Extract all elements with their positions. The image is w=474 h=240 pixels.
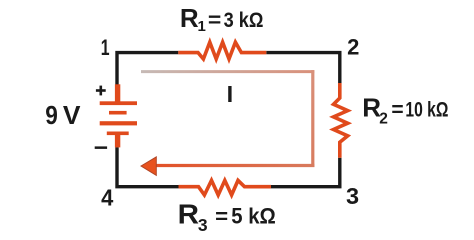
wire R1 to node 2 to R2 (top-right) bbox=[266, 53, 340, 83]
wire R2 to node 3 to R3 (bottom-right) bbox=[271, 158, 340, 187]
svg-text:3 kΩ: 3 kΩ bbox=[224, 9, 264, 32]
current loop bottom segment bbox=[156, 164, 314, 167]
svg-text:5 kΩ: 5 kΩ bbox=[231, 204, 275, 229]
current loop right segment bbox=[311, 70, 314, 167]
wire node 1 to R1 (top-left) bbox=[117, 53, 178, 85]
svg-text:R: R bbox=[178, 198, 199, 229]
svg-text:2: 2 bbox=[379, 111, 388, 128]
svg-text:I: I bbox=[227, 81, 234, 107]
battery 9V bbox=[100, 84, 137, 147]
svg-text:4: 4 bbox=[101, 184, 113, 210]
svg-text:=: = bbox=[215, 205, 228, 229]
current loop top segment bbox=[141, 70, 314, 73]
resistor R1 bbox=[178, 42, 266, 59]
wire R3 to node 4 to battery (bottom-left) bbox=[117, 147, 179, 187]
svg-text:=: = bbox=[208, 9, 221, 32]
svg-text:1: 1 bbox=[198, 18, 206, 35]
svg-text:V: V bbox=[63, 100, 81, 130]
battery minus sign bbox=[95, 146, 107, 149]
svg-text:R: R bbox=[180, 3, 199, 33]
svg-text:10 kΩ: 10 kΩ bbox=[405, 98, 448, 121]
svg-text:1: 1 bbox=[101, 35, 110, 60]
svg-text:3: 3 bbox=[198, 215, 208, 235]
battery plus sign bbox=[96, 86, 106, 96]
svg-text:3: 3 bbox=[346, 183, 359, 209]
svg-text:=: = bbox=[391, 98, 403, 121]
svg-text:9: 9 bbox=[45, 100, 58, 130]
svg-text:2: 2 bbox=[347, 35, 359, 60]
current arrow bbox=[141, 157, 156, 175]
resistor R3 bbox=[179, 180, 272, 195]
resistor R2 bbox=[334, 83, 348, 158]
